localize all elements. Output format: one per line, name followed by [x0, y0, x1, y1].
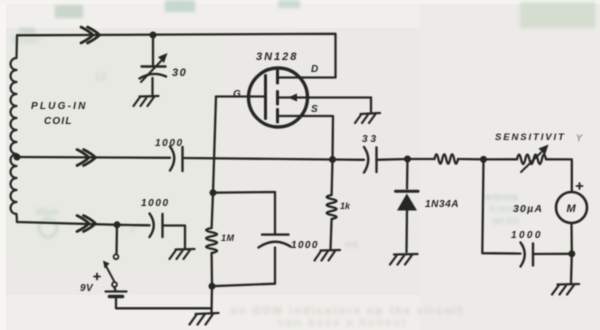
svg-text:««: «« — [345, 237, 359, 251]
arrows middle tap chevrons — [77, 150, 96, 166]
ground gate network — [190, 313, 219, 325]
svg-text:1000: 1000 — [155, 138, 184, 149]
svg-text:PLUG-IN: PLUG-IN — [31, 101, 88, 112]
wire meter bottom to node — [570, 223, 573, 254]
potentiometer R4 sensitivity — [484, 145, 572, 193]
svg-text:33: 33 — [362, 134, 379, 145]
svg-text:M: M — [567, 203, 577, 215]
capacitor C3 1000 (bottom tap) — [150, 214, 186, 249]
ground meter — [552, 284, 579, 295]
transistor Q1 3N128 MOSFET — [216, 68, 371, 160]
node meter bottom junction — [568, 250, 575, 257]
wire gate to R1 junction — [213, 97, 216, 193]
ground for C1 — [134, 96, 159, 106]
svg-text:G: G — [233, 89, 241, 100]
capacitor C6 1000 (meter) — [521, 243, 572, 267]
svg-text:9V: 9V — [80, 283, 94, 294]
node junction top rail / C1 — [150, 32, 157, 39]
node gate network top — [210, 189, 217, 196]
label + (battery) — [94, 274, 100, 280]
svg-text:1M: 1M — [221, 233, 235, 243]
switch S1 — [103, 225, 118, 287]
coil L1 plug-in coil — [11, 35, 18, 222]
resistor R2 1k — [327, 160, 337, 250]
ground D1 — [390, 254, 418, 265]
svg-text:1000: 1000 — [141, 198, 170, 209]
capacitor C4 33 — [364, 147, 377, 173]
node coil middle tap — [14, 154, 21, 161]
meter M1 30uA — [556, 192, 587, 223]
svg-text:1k: 1k — [340, 201, 351, 211]
arrows top rail chevrons — [81, 27, 100, 43]
wire meter node to ground — [570, 254, 573, 283]
wire source node to C4 — [333, 158, 365, 161]
arrows bottom tap chevrons — [77, 216, 96, 232]
svg-text:del RX: del RX — [492, 216, 519, 226]
node battery/switch junction — [114, 221, 121, 228]
ground R2 — [315, 250, 341, 261]
wire coil bottom tap — [17, 222, 117, 225]
svg-text:antenna: antenna — [485, 192, 518, 202]
svg-text:1000: 1000 — [291, 240, 319, 251]
svg-text:COIL: COIL — [44, 116, 73, 127]
diode D1 1N34A — [396, 159, 419, 252]
resistor R1 1M — [206, 193, 217, 287]
svg-text:30µA: 30µA — [35, 207, 59, 218]
ground substrate lead — [355, 98, 380, 124]
svg-text:Y: Y — [576, 133, 583, 143]
svg-text:3N128: 3N128 — [256, 51, 298, 63]
wire top rail from coil top to drain corner — [17, 34, 336, 78]
wire C2 to source node — [183, 158, 333, 160]
svg-text:1N34A: 1N34A — [425, 199, 459, 210]
capacitor C5 1000 (gate) — [212, 192, 291, 286]
svg-text:D: D — [311, 64, 318, 75]
svg-text:13: 13 — [95, 72, 107, 83]
wire C4 to diode node — [377, 158, 408, 161]
svg-text:30µA: 30µA — [513, 203, 543, 215]
node source junction — [329, 156, 336, 163]
svg-text:1000: 1000 — [511, 230, 543, 241]
label + (meter) — [577, 183, 583, 189]
capacitor C1 30pF variable — [140, 35, 168, 95]
node meter branch junction — [480, 156, 487, 163]
svg-text:30: 30 — [172, 67, 187, 79]
capacitor C2 1000 — [170, 147, 183, 172]
ground C3 — [170, 249, 195, 259]
wire gate net to ground — [210, 286, 213, 313]
svg-text:on GDM indicators up the circu: on GDM indicators up the circuit — [230, 305, 464, 317]
wire middle tap to C2 — [17, 156, 170, 159]
svg-text:SENSITIVIT: SENSITIVIT — [495, 132, 566, 143]
svg-text:can base a honest: can base a honest — [278, 317, 407, 329]
svg-text:S: S — [311, 104, 318, 115]
node gate network bottom — [209, 283, 216, 290]
wire junction to C3 — [117, 224, 150, 227]
node diode junction — [404, 156, 411, 163]
battery B1 9V — [106, 287, 212, 308]
resistor R3 (series) — [408, 154, 484, 164]
wire meter branch down — [482, 159, 520, 253]
